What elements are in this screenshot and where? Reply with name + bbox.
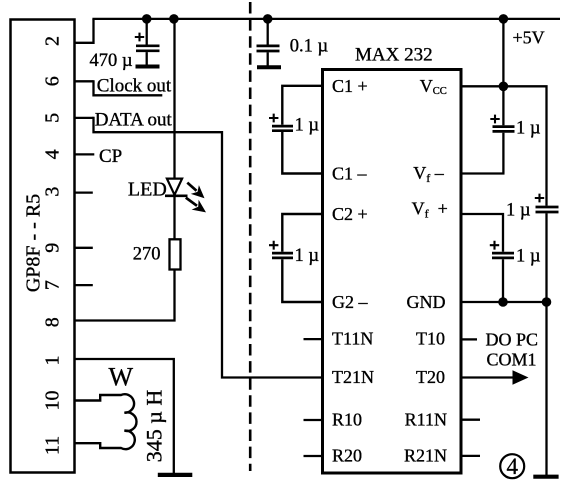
svg-text:CP: CP xyxy=(99,146,122,167)
svg-text:T11N: T11N xyxy=(332,329,373,349)
svg-text:1 µ: 1 µ xyxy=(295,246,320,266)
ground bottom left xyxy=(158,473,193,477)
inductor W 345uH xyxy=(75,363,167,463)
wire LED to resistor xyxy=(173,196,175,240)
svg-text:C2 +: C2 + xyxy=(332,204,368,224)
LED D1 xyxy=(128,178,206,212)
pin 10 xyxy=(42,391,64,411)
wire +5V riser xyxy=(502,19,504,86)
pin 8 xyxy=(42,317,64,327)
wire VCC junction to right rail xyxy=(503,86,546,205)
svg-text:5: 5 xyxy=(42,113,64,123)
svg-text:MAX 232: MAX 232 xyxy=(355,45,433,66)
pin 6 xyxy=(42,76,94,86)
junction dot GND/Vf+ cap xyxy=(498,297,508,307)
svg-text:DO PC: DO PC xyxy=(486,330,539,350)
svg-text:T21N: T21N xyxy=(332,367,374,387)
svg-text:2: 2 xyxy=(42,36,64,46)
svg-text:R11N: R11N xyxy=(405,410,447,430)
wire pin 1 to ground xyxy=(75,359,174,474)
svg-text:6: 6 xyxy=(42,76,64,86)
svg-text:+5V: +5V xyxy=(513,28,545,48)
capacitor 0.1u xyxy=(257,19,329,66)
svg-text:GND: GND xyxy=(407,292,446,312)
svg-text:LED: LED xyxy=(128,178,167,200)
svg-text:1 µ: 1 µ xyxy=(516,247,541,267)
svg-text:Clock out: Clock out xyxy=(97,75,172,96)
wire T20 arrow to PC xyxy=(461,370,529,384)
svg-text:R20: R20 xyxy=(332,446,362,466)
wire VCC stub xyxy=(461,85,503,87)
wire C1 bracket xyxy=(282,86,322,174)
wire R21N stub xyxy=(461,455,480,457)
wire Vf+ stub and down xyxy=(461,214,503,252)
svg-text:9: 9 xyxy=(42,243,64,253)
svg-text:11: 11 xyxy=(42,436,64,455)
ground bottom right xyxy=(533,475,558,479)
svg-text:G2 –: G2 – xyxy=(332,292,368,312)
wire Vf- stub xyxy=(461,172,505,174)
svg-text:R21N: R21N xyxy=(404,446,447,466)
svg-text:R10: R10 xyxy=(332,410,362,430)
svg-text:T20: T20 xyxy=(416,367,445,387)
junction dot GND/right rail xyxy=(542,297,552,307)
svg-text:470 µ: 470 µ xyxy=(89,51,132,71)
pin 2 xyxy=(42,36,64,46)
wire GND row xyxy=(461,301,547,303)
junction dot rail/0.1u xyxy=(263,14,273,24)
junction dot rail/LED line xyxy=(169,14,179,24)
svg-text:7: 7 xyxy=(42,280,64,290)
svg-text:270: 270 xyxy=(133,245,161,265)
ground below 470u xyxy=(136,65,160,69)
svg-text:4: 4 xyxy=(506,454,518,479)
wire C2 bracket xyxy=(282,214,322,302)
svg-text:1: 1 xyxy=(42,356,64,366)
capacitor 1u (C1) xyxy=(269,114,319,136)
ground below 0.1u xyxy=(257,65,281,69)
wire R20 stub xyxy=(304,455,323,457)
wire +5V top rail xyxy=(92,18,560,20)
wire right rail lower xyxy=(545,213,547,475)
figure number 4 circled xyxy=(500,454,524,479)
svg-text:DATA out: DATA out xyxy=(95,109,173,130)
junction dot rail/470u xyxy=(142,14,152,24)
capacitor 1u (C2) xyxy=(269,241,319,266)
svg-text:4: 4 xyxy=(42,149,64,159)
IC GP8F--R5 box xyxy=(11,20,75,473)
resistor 270 xyxy=(133,239,181,269)
svg-text:8: 8 xyxy=(42,317,64,327)
wire resistor to pin 8 xyxy=(75,270,175,321)
pin 5 xyxy=(42,113,94,123)
svg-text:COM1: COM1 xyxy=(487,349,537,369)
wire LED line from rail xyxy=(173,19,175,180)
IC U1 MAX232 box xyxy=(323,45,462,474)
pin 3 xyxy=(42,187,93,197)
junction dot VCC xyxy=(499,82,509,92)
svg-text:W: W xyxy=(109,363,134,392)
svg-text:T10: T10 xyxy=(416,329,445,349)
dashed separator line xyxy=(249,2,252,471)
pin 4 xyxy=(42,149,95,159)
capacitor 1u (right rail) xyxy=(506,194,559,221)
svg-text:1 µ: 1 µ xyxy=(295,116,320,136)
svg-text:345 µ H: 345 µ H xyxy=(142,390,167,463)
pin 11 xyxy=(42,436,64,455)
pin 9 xyxy=(42,243,93,253)
wire R11N stub xyxy=(461,419,480,421)
svg-text:C1 +: C1 + xyxy=(332,76,368,96)
capacitor 1u (Vf+ to GND) xyxy=(490,241,541,302)
wire T10 stub xyxy=(461,338,477,340)
capacitor C 470u xyxy=(89,19,159,71)
capacitor 1u (VCC to Vf-) xyxy=(490,86,541,173)
svg-text:Vf +: Vf + xyxy=(412,199,448,221)
wire R10 stub xyxy=(304,419,323,421)
svg-text:3: 3 xyxy=(42,187,64,197)
wire pin 2 riser to +5V rail xyxy=(75,19,94,43)
junction dot rail/+5V riser xyxy=(499,14,509,24)
pin 7 xyxy=(42,280,93,290)
wire Clock out (pin 6) xyxy=(94,80,163,95)
svg-text:1 µ: 1 µ xyxy=(516,119,541,139)
svg-text:C1 –: C1 – xyxy=(332,164,368,184)
svg-text:1 µ: 1 µ xyxy=(506,201,531,221)
wire T11N stub xyxy=(304,338,323,340)
wire DATA out (pin 5) to T21N xyxy=(94,117,323,378)
pin 1 xyxy=(42,356,64,366)
svg-text:10: 10 xyxy=(42,391,64,411)
svg-text:0.1 µ: 0.1 µ xyxy=(290,37,329,57)
